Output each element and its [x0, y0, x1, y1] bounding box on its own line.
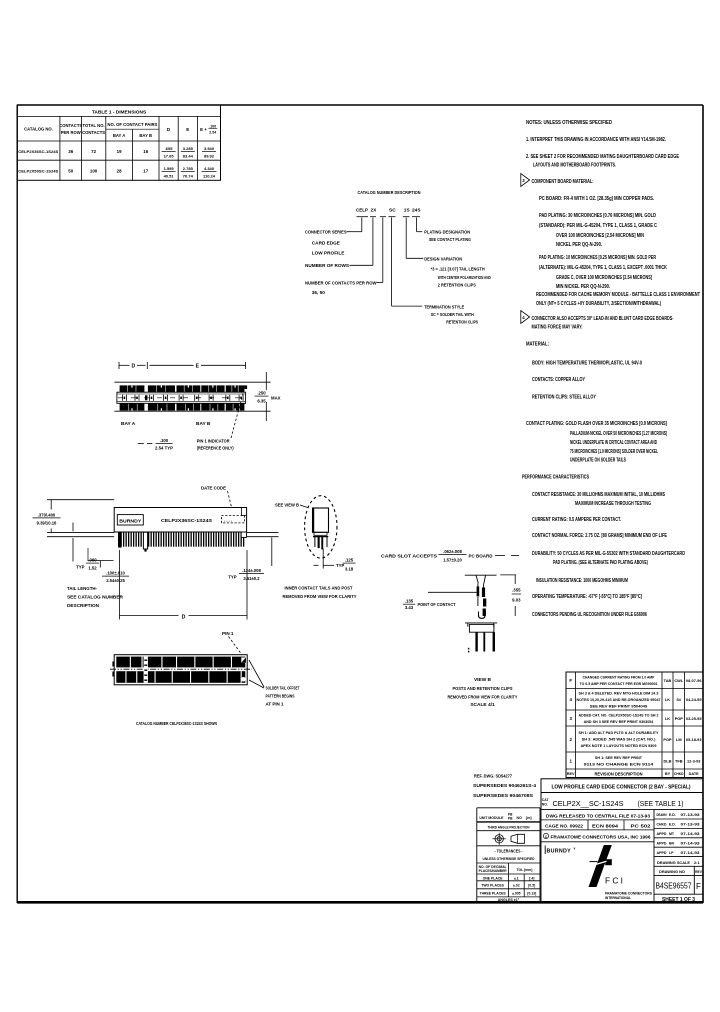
top view dimension line D E [119, 364, 130, 366]
approval rows [654, 818, 703, 820]
revision table row lines [566, 688, 703, 690]
svg-text:MIN NICKEL PER QQ-N-290.: MIN NICKEL PER QQ-N-290. [556, 284, 610, 290]
svg-text:TERMINATION STYLE: TERMINATION STYLE [424, 304, 464, 309]
svg-text:APPD: APPD [657, 851, 667, 855]
svg-text:REF. DWG. SD54277: REF. DWG. SD54277 [474, 774, 512, 779]
svg-text:NOTES 10,20,29-41S AND RE-ORGA: NOTES 10,20,29-41S AND RE-ORGANIZED 9504… [577, 697, 661, 702]
svg-text:NICKEL UNDERPLATE IN CRITICAL: NICKEL UNDERPLATE IN CRITICAL CONTACT AR… [570, 440, 657, 446]
svg-text:9113 NO CHANGE ECN: 9113 NO CHANGE ECN 9114 [584, 761, 655, 766]
svg-text:CATALOG NUMBER DESCRIPTION: CATALOG NUMBER DESCRIPTION [358, 190, 421, 196]
svg-text:TFB: TFB [675, 758, 683, 763]
svg-text:89.92: 89.92 [204, 154, 215, 159]
svg-text:17.65: 17.65 [164, 154, 175, 159]
svg-text:SH 3: ADDED .545 WAS SH 2 (CAT: SH 3: ADDED .545 WAS SH 2 (CAT. NO.) [582, 737, 656, 742]
svg-text:72: 72 [91, 149, 96, 154]
svg-text:CONNECTOR ALSO ACCEPTS 30° LEA: CONNECTOR ALSO ACCEPTS 30° LEAD-IN AND B… [532, 316, 674, 322]
svg-text:DESCRIPTION: DESCRIPTION [67, 603, 100, 608]
svg-text:PAD PLATING: 10 MICROINCHES [0: PAD PLATING: 10 MICROINCHES [0.25 MICRON… [539, 255, 656, 261]
svg-text:CATALOG NUMBER CELP2X36SC-1S24: CATALOG NUMBER CELP2X36SC-1S24S SHOWN [136, 721, 217, 727]
svg-text:COMPONENT BOARD MATERIAL:: COMPONENT BOARD MATERIAL: [532, 179, 594, 185]
svg-text:UNIT MODULE: UNIT MODULE [479, 816, 504, 820]
svg-text:TYP: TYP [76, 565, 84, 570]
svg-text:SC = SOLDER TAIL WITH: SC = SOLDER TAIL WITH [431, 312, 474, 317]
bottom view mounting ears [112, 662, 114, 667]
center polarization key top view [145, 395, 147, 400]
svg-text:PERFORMANCE CHARACTERISTICS: PERFORMANCE CHARACTERISTICS [522, 475, 589, 481]
cat no row [541, 809, 703, 811]
svg-text:SC: SC [389, 208, 396, 214]
svg-text:CELP2X__SC-1S24S: CELP2X__SC-1S24S [553, 799, 624, 808]
svg-text:PGP: PGP [675, 716, 684, 721]
svg-text:PAD PLATING. (SEE ALTERNATE PA: PAD PLATING. (SEE ALTERNATE PAD PLATING … [553, 560, 648, 566]
side view body outline [114, 508, 246, 533]
svg-text:APPD: APPD [657, 832, 667, 836]
svg-text:[m]: [m] [526, 816, 532, 820]
svg-text:TO 0.5 AMP PER CONTACT PER EGR: TO 0.5 AMP PER CONTACT PER EGR MG90001 [580, 681, 659, 686]
pitch dim 100 typ [138, 443, 144, 445]
svg-text:04-24-95: 04-24-95 [686, 697, 702, 702]
svg-text:F C I: F C I [605, 875, 623, 885]
drawing scale row [654, 856, 703, 858]
svg-text:PC BOARD: PC BOARD [469, 553, 494, 558]
svg-text:24S: 24S [412, 208, 421, 214]
svg-text:.100: .100 [209, 125, 216, 129]
svg-text:FRAMATOME CONNECTORS USA, INC: FRAMATOME CONNECTORS USA, INC 1996 [551, 834, 651, 839]
svg-text:PATTERN BEGINS: PATTERN BEGINS [266, 694, 295, 699]
svg-text:TAB: TAB [664, 678, 672, 683]
svg-text:B4SE96557: B4SE96557 [656, 881, 692, 890]
bottom view pin 1 corner marker [241, 657, 246, 662]
svg-text:D: D [131, 364, 135, 370]
leader plating designation [416, 218, 418, 232]
middle column released row [541, 819, 654, 821]
svg-text:(ALTERNATE): MIL-G-45204, TYP: (ALTERNATE): MIL-G-45204, TYPE 1, CLASS … [539, 265, 667, 271]
svg-text:RETENTION CLIPS: STEEL ALLOY: RETENTION CLIPS: STEEL ALLOY [532, 395, 597, 401]
svg-text:INSULATION RESISTANCE: 1000 ME: INSULATION RESISTANCE: 1000 MEGOHMS MINI… [536, 578, 628, 584]
svg-text:NUMBER OF ROWS: NUMBER OF ROWS [305, 263, 349, 268]
svg-text:BY: BY [665, 772, 671, 776]
svg-text:±.005: ±.005 [512, 891, 521, 895]
svg-text:AT PIN 1: AT PIN 1 [266, 702, 284, 707]
svg-text:CATALOG NO.: CATALOG NO. [24, 127, 53, 132]
solder tail offset leaders [249, 660, 264, 687]
svg-text:75 MICROINCHES [1.9 MICRONS] S: 75 MICROINCHES [1.9 MICRONS] SOLDER OVER… [570, 449, 658, 455]
svg-text:CONNECTORS PENDING UL RECOGNIT: CONNECTORS PENDING UL RECOGNITION UNDER … [532, 612, 647, 618]
svg-text:.060: .060 [88, 558, 97, 563]
svg-text:OPERATING TEMPERATURE: -67°F [: OPERATING TEMPERATURE: -67°F [-55°C] TO … [532, 594, 642, 600]
bottom D dimension [119, 550, 121, 620]
center polarization post side view [143, 532, 147, 549]
svg-text:36: 36 [68, 149, 73, 154]
third angle projection symbol [497, 837, 501, 841]
housing contact motifs [121, 395, 123, 401]
svg-text:v: v [574, 847, 576, 851]
svg-text:CARD SLOT ACCEPTS: CARD SLOT ACCEPTS [381, 553, 437, 558]
svg-text:16: 16 [143, 149, 148, 154]
svg-text:TYP: TYP [336, 563, 344, 568]
svg-text:.695: .695 [165, 146, 174, 151]
svg-text:CONNECTOR SERIES: CONNECTOR SERIES [305, 230, 347, 235]
svg-text:36, 50: 36, 50 [312, 290, 325, 295]
svg-text:PC 502: PC 502 [631, 823, 652, 828]
svg-text:DRAWING NO: DRAWING NO [659, 869, 685, 874]
svg-text:NO: NO [517, 816, 523, 820]
svg-text:SEE CATALOG NUMBER: SEE CATALOG NUMBER [67, 595, 124, 600]
svg-text:.134±.008: .134±.008 [242, 568, 261, 573]
svg-text:AND SH 3 SEE REV REF PRINT 930: AND SH 3 SEE REV REF PRINT 9303054 [584, 719, 654, 724]
svg-text:CHANGED CURRENT RATING FROM 1.: CHANGED CURRENT RATING FROM 1.0 AMP [583, 675, 655, 680]
svg-text:DRAWING SCALE: DRAWING SCALE [657, 860, 690, 865]
board thickness dim 060 [72, 523, 74, 532]
framatome copyright row [541, 841, 654, 843]
svg-text:PAD PLATING: 30 MICROINCHES [0: PAD PLATING: 30 MICROINCHES [0.76 MICRON… [539, 213, 656, 219]
svg-text:2 RETENTION CLIPS: 2 RETENTION CLIPS [438, 283, 476, 288]
svg-text:[.4]: [.4] [529, 876, 534, 880]
motherboard lines right [247, 531, 279, 533]
drawing number cell [693, 866, 695, 894]
svg-text:CONTACT NORMAL FORCE: 2.75 OZ.: CONTACT NORMAL FORCE: 2.75 OZ. [80 GRAMS… [532, 533, 668, 539]
svg-text:50: 50 [68, 169, 73, 174]
bottom view white grid top row [130, 657, 131, 668]
svg-text:PGP: PGP [663, 737, 672, 742]
contact beams in slot [477, 587, 480, 597]
solder tail comb [118, 532, 119, 546]
svg-text:VIEW B: VIEW B [474, 677, 492, 683]
svg-text:05-18-93: 05-18-93 [686, 737, 702, 742]
svg-text:.355: .355 [512, 588, 521, 593]
svg-text:CELP2X36SC-1S24S: CELP2X36SC-1S24S [18, 150, 59, 154]
svg-text:BAY A: BAY A [121, 421, 136, 427]
top view height dim line 250 max [265, 372, 267, 390]
bottom view black fill top row [116, 657, 245, 668]
fci slash logo [598, 845, 612, 863]
svg-text:TOTAL NO.: TOTAL NO. [83, 123, 105, 128]
svg-text:TWO PLACES: TWO PLACES [481, 883, 504, 887]
pin 1 indicator dot [244, 385, 247, 389]
svg-text:2.54 TYP: 2.54 TYP [155, 446, 173, 451]
svg-text:07-14-93: 07-14-93 [681, 851, 700, 855]
svg-text:BAY B: BAY B [139, 133, 152, 138]
svg-text:CAGE NO. 09922: CAGE NO. 09922 [545, 823, 584, 828]
svg-text:- TOLERANCES -: - TOLERANCES - [495, 849, 523, 854]
svg-text:2. SEE SHEET 2 FOR RECOMMENDE: 2. SEE SHEET 2 FOR RECOMMENDED MATING DA… [526, 154, 680, 160]
table row divider [17, 159, 220, 161]
svg-text:DLB: DLB [664, 758, 672, 763]
svg-text:F: F [569, 678, 572, 683]
svg-text:CARD EDGE: CARD EDGE [312, 241, 340, 246]
svg-text:CAT: CAT [542, 798, 550, 802]
svg-text:. . . .: . . . . [224, 517, 232, 522]
svg-text:MAX: MAX [271, 396, 281, 401]
svg-text:PIN 1 INDICATOR: PIN 1 INDICATOR [197, 438, 231, 443]
pin 1 leader dashed [231, 390, 244, 438]
svg-text:POINT OF CONTACT: POINT OF CONTACT [418, 602, 456, 607]
svg-text:CONTACTS: COPPER ALLOY: CONTACTS: COPPER ALLOY [532, 377, 585, 383]
svg-text:TAIL LENGTH-: TAIL LENGTH- [67, 586, 97, 591]
svg-text:07-13-93: 07-13-93 [681, 823, 700, 827]
svg-text:3.285: 3.285 [183, 146, 194, 151]
svg-text:PC BOARD: FR-4 WITH 1 OZ. [28.: PC BOARD: FR-4 WITH 1 OZ. [28.35g] MIN C… [539, 196, 655, 202]
svg-text:DWG RELEASED TO CENTRAL FILE 0: DWG RELEASED TO CENTRAL FILE 07-13-93 [546, 813, 651, 818]
title bar box [541, 779, 703, 793]
svg-text:SEE REV REF PRINT 9504049: SEE REV REF PRINT 9504049 [590, 703, 648, 708]
svg-text:ECN 8094: ECN 8094 [592, 823, 619, 828]
svg-text:DATE: DATE [689, 772, 700, 776]
bottom view black fill bottom row [116, 671, 245, 683]
leader number of rows [372, 218, 374, 266]
svg-text:(REFERENCE ONLY): (REFERENCE ONLY) [197, 446, 234, 451]
svg-text:PER ROW: PER ROW [61, 130, 81, 135]
svg-text:LOW PROFILE CARD EDGE CONNECTO: LOW PROFILE CARD EDGE CONNECTOR (2 BAY -… [552, 785, 691, 791]
bottom view white grid bottom row [125, 671, 126, 683]
body right end step detail [241, 508, 243, 515]
view b base band [314, 532, 327, 535]
svg-text:03-25-95: 03-25-95 [686, 716, 702, 721]
svg-text:SH 3 & 4 DELETED. REV MTG HOLE: SH 3 & 4 DELETED. REV MTG HOLE DIM 24.3 [579, 690, 660, 695]
svg-text:SH 1: SEE REV REF PRINT: SH 1: SEE REV REF PRINT [595, 755, 643, 760]
svg-text:2X: 2X [371, 208, 378, 214]
svg-text:3.51±0.2: 3.51±0.2 [243, 576, 260, 581]
svg-text:.100: .100 [160, 438, 169, 443]
svg-text:THIRD ANGLE PROJECTION: THIRD ANGLE PROJECTION [488, 825, 530, 829]
svg-text:LK: LK [665, 697, 670, 702]
housing centerline dashes [118, 397, 245, 399]
note flag 4 [521, 311, 530, 324]
svg-text:CONTACT PLATING: GOLD FLASH OV: CONTACT PLATING: GOLD FLASH OVER 35 MICR… [526, 421, 667, 427]
svg-text:RETENTION CLIPS: RETENTION CLIPS [446, 319, 478, 324]
view b tails [314, 537, 316, 547]
view b end view body [313, 508, 329, 532]
view b ellipse dashed [305, 496, 337, 558]
svg-text:APEX NOTE 1 LAYOUTS NOTED E: APEX NOTE 1 LAYOUTS NOTED ECN 9309 [581, 743, 658, 748]
svg-text:FRAMATOME CONNECTORS: FRAMATOME CONNECTORS [605, 891, 652, 895]
motherboard lines left [47, 531, 114, 533]
svg-text:3.540: 3.540 [204, 146, 215, 151]
retention clip post right end [241, 532, 246, 537]
leader design variation [405, 218, 407, 259]
svg-text:TOL [mm]: TOL [mm] [517, 868, 533, 872]
svg-text:12-3-93: 12-3-93 [687, 758, 701, 763]
drawing sheet border [17, 104, 703, 106]
svg-text:D: D [182, 614, 186, 620]
svg-text:CHKD: CHKD [657, 823, 667, 827]
leader connector series [361, 218, 363, 232]
sheet row [654, 893, 703, 895]
tail length dim right 134 [271, 538, 273, 567]
svg-text:TYP: TYP [228, 575, 236, 580]
bottom view retention clip hole [241, 677, 246, 682]
svg-text:CURRENT RATING: 0.5 AMPERE PER: CURRENT RATING: 0.5 AMPERE PER CONTACT. [532, 517, 621, 523]
tail protrusion dim 100 [88, 560, 114, 562]
svg-text:SEE VIEW B: SEE VIEW B [275, 502, 300, 507]
svg-text:LP: LP [669, 851, 674, 855]
left tolerance block [477, 807, 540, 809]
leader number of contacts per row [382, 218, 384, 283]
cross section top face line [465, 574, 497, 576]
tolerance table [477, 862, 540, 864]
svg-text:CELP2X36SC-1S24S: CELP2X36SC-1S24S [161, 518, 213, 524]
svg-text:RECOMMENDED FOR CACHE MEMORY M: RECOMMENDED FOR CACHE MEMORY MODULE - BA… [536, 292, 700, 298]
svg-text:MT: MT [669, 832, 675, 836]
svg-text:CELP: CELP [356, 208, 369, 214]
svg-text:LAYOUTS AND MOTHERBOARD FOOTPR: LAYOUTS AND MOTHERBOARD FOOTPRINTS. [533, 163, 616, 169]
svg-text:SH 1: ADD ALT PAD PLTG & ALT D: SH 1: ADD ALT PAD PLTG & ALT DURABILITY [579, 730, 659, 735]
svg-text:BODY: HIGH TEMPERATURE THERMOP: BODY: HIGH TEMPERATURE THERMOPLASTIC, UL… [532, 361, 642, 367]
svg-text:POSTS AND RETENTION CLIPS: POSTS AND RETENTION CLIPS [453, 686, 514, 692]
leader termination style [391, 218, 393, 307]
svg-text:MATERIAL:: MATERIAL: [526, 342, 549, 348]
svg-text:MAXIMUM INCREASE THROUGH TESTI: MAXIMUM INCREASE THROUGH TESTING [575, 501, 651, 507]
svg-text:UNDERPLATE ON SOLDER TAILS: UNDERPLATE ON SOLDER TAILS [570, 458, 626, 464]
svg-text:PLATING DESIGNATION: PLATING DESIGNATION [424, 230, 471, 235]
cage ecn pc row [541, 829, 654, 831]
stack height extension line [47, 499, 114, 501]
svg-text:INNER CONTACT TAILS AND POST: INNER CONTACT TAILS AND POST [285, 586, 353, 591]
svg-text:[0.5]: [0.5] [528, 883, 535, 887]
svg-text:PALLADIUM-NICKEL OVER 50 MICRO: PALLADIUM-NICKEL OVER 50 MICROINCHES [1.… [570, 431, 667, 437]
svg-text:NO. OF CONTACT PAIRS: NO. OF CONTACT PAIRS [107, 122, 157, 127]
svg-text:07-14-93: 07-14-93 [681, 832, 700, 836]
svg-text:INTERNATIONAL: INTERNATIONAL [605, 896, 631, 900]
svg-text:1.52: 1.52 [88, 566, 97, 571]
bottom view body outline [114, 655, 247, 685]
revision table box [566, 672, 703, 778]
svg-text:DATE CODE: DATE CODE [201, 486, 226, 491]
svg-text:BAY B: BAY B [196, 421, 211, 427]
svg-text:CELP2X50SC-1S24S: CELP2X50SC-1S24S [18, 170, 59, 174]
svg-text:NUMBER OF CONTACTS PER ROW: NUMBER OF CONTACTS PER ROW [305, 280, 377, 285]
svg-text:REV: REV [695, 870, 703, 874]
svg-text:40.51: 40.51 [164, 173, 175, 178]
svg-text:.250: .250 [257, 391, 266, 396]
svg-text:3.18: 3.18 [345, 567, 354, 572]
contact hook bottom [479, 611, 486, 618]
svg-text:APPD: APPD [657, 841, 667, 845]
svg-text:GRADE C, OVER 100 MICROINCHES: GRADE C, OVER 100 MICROINCHES [2.54 MICR… [556, 275, 652, 281]
svg-text:ANGLES ±1°: ANGLES ±1° [498, 898, 520, 902]
svg-text:THREE PLACES: THREE PLACES [480, 891, 507, 895]
svg-text:.125: .125 [345, 558, 354, 563]
top view contact blocks upper row [120, 385, 145, 393]
svg-text:SEE CONTACT PLATING: SEE CONTACT PLATING [429, 237, 471, 242]
table column lines [59, 116, 61, 180]
svg-text:NOTES: UNLESS OTHERWISE SPECIF: NOTES: UNLESS OTHERWISE SPECIFIED [526, 120, 612, 126]
svg-text:BAY A: BAY A [113, 133, 125, 138]
top view housing band [117, 392, 246, 403]
svg-text:.100±.010: .100±.010 [106, 571, 125, 576]
svg-text:REVISION DESCRIPTION: REVISION DESCRIPTION [595, 771, 643, 776]
svg-text:17: 17 [143, 169, 148, 174]
svg-text:SOLDER TAIL OFFSET: SOLDER TAIL OFFSET [266, 685, 300, 690]
svg-text:UNLESS OTHERWISE SPECIFIED: UNLESS OTHERWISE SPECIFIED [483, 857, 535, 861]
svg-text:ONE PLACE: ONE PLACE [483, 876, 504, 880]
svg-text:*3 = .121 [3.07] TAIL LENGTH: *3 = .121 [3.07] TAIL LENGTH [431, 266, 486, 271]
segment underscores [357, 216, 369, 218]
svg-text:1S: 1S [404, 208, 411, 214]
svg-text:DURABILITY: 50 CYCLES AS PER M: DURABILITY: 50 CYCLES AS PER MIL-G-55302… [532, 551, 685, 557]
svg-text:BURNDY: BURNDY [119, 519, 142, 525]
svg-text:3.43: 3.43 [405, 605, 414, 610]
svg-text:70.74: 70.74 [183, 173, 194, 178]
cross section slot funnel [476, 576, 478, 584]
svg-text:4.340: 4.340 [204, 166, 215, 171]
svg-text:MATING FORCE MAY VARY.: MATING FORCE MAY VARY. [532, 325, 583, 331]
svg-text:PIN 1: PIN 1 [222, 631, 234, 636]
top view extension lines [114, 381, 270, 383]
svg-text:REMOVED FROM VIEW FOR CLARITY: REMOVED FROM VIEW FOR CLARITY [283, 594, 357, 599]
svg-text:(SEE TABLE 1): (SEE TABLE 1) [638, 801, 684, 808]
svg-text:E.D.: E.D. [669, 823, 676, 827]
svg-text:SCALE 4/1: SCALE 4/1 [470, 702, 495, 708]
mounted section bottom figure [465, 622, 497, 624]
table sub-header line bay a bay b [106, 128, 159, 130]
svg-text:6.35: 6.35 [257, 399, 266, 404]
svg-text:83.44: 83.44 [183, 154, 194, 159]
svg-text:LOW PROFILE: LOW PROFILE [312, 251, 345, 256]
svg-text:DESIGN VARIATION: DESIGN VARIATION [424, 256, 463, 261]
svg-text:PLACES/NUMBER: PLACES/NUMBER [479, 869, 508, 873]
svg-text:.370/.400: .370/.400 [38, 512, 56, 517]
svg-text:REV: REV [567, 772, 575, 776]
svg-text:NICKEL PER QQ-N-290.: NICKEL PER QQ-N-290. [556, 242, 603, 248]
svg-text:PB: PB [508, 817, 513, 821]
svg-text:9.03: 9.03 [512, 598, 521, 603]
contact block white separators [126, 385, 129, 393]
svg-text:19: 19 [117, 149, 122, 154]
svg-text:ADDED CAT. NO. CELP2X50SC-1S24: ADDED CAT. NO. CELP2X50SC-1S24S TO SH 2 [579, 712, 660, 717]
svg-text:E.D.: E.D. [669, 813, 676, 817]
svg-text:1.595: 1.595 [164, 166, 175, 171]
svg-text:CONTACTS: CONTACTS [59, 123, 82, 128]
svg-text:2:1: 2:1 [694, 860, 700, 865]
svg-text:SHEET 1 OF 3: SHEET 1 OF 3 [662, 897, 695, 903]
svg-text:9.39/10.16: 9.39/10.16 [37, 521, 57, 526]
svg-text:S#: S# [676, 697, 682, 702]
svg-text:08-07-96: 08-07-96 [686, 678, 702, 683]
svg-text:[0.13]: [0.13] [527, 891, 536, 895]
view b tail dim 125 [322, 549, 324, 569]
point of contact dim [428, 591, 477, 593]
svg-text:OVER 100 MICROINCHES [2.54 MIC: OVER 100 MICROINCHES [2.54 MICRONS] MIN [556, 233, 644, 239]
table header row line [17, 115, 220, 117]
svg-text:CHKD: CHKD [674, 772, 684, 776]
svg-text:±.1: ±.1 [514, 876, 519, 880]
svg-text:28: 28 [117, 169, 122, 174]
svg-text:CWL: CWL [674, 678, 683, 683]
svg-text:REMOVED FROM VIEW FOR CLARITY: REMOVED FROM VIEW FOR CLARITY [448, 695, 519, 701]
svg-text:(STANDARD): PER MIL-G-45204: (STANDARD): PER MIL-G-45204, TYPE 1, CLA… [539, 223, 657, 229]
svg-text:07-13-93: 07-13-93 [681, 813, 700, 817]
svg-text:2.54: 2.54 [209, 131, 216, 135]
burndy logo box on body [117, 515, 143, 525]
svg-text:±.02: ±.02 [513, 883, 520, 887]
svg-text:SUPERSEDES 9046261S-4: SUPERSEDES 9046261S-4 [473, 783, 536, 788]
svg-text:1.57±0.20: 1.57±0.20 [443, 558, 462, 563]
title block vertical dividers [540, 793, 542, 903]
svg-text:E: E [186, 127, 189, 132]
bottom view centerline dash dot [110, 668, 252, 670]
note flag 3 [521, 174, 530, 187]
svg-text:1. INTERPRET THIS DRAWING IN: 1. INTERPRET THIS DRAWING IN ACCORDANCE … [526, 137, 666, 143]
svg-text:.135: .135 [405, 599, 414, 604]
table header bottom line [17, 140, 220, 142]
date code dashed box [221, 516, 244, 523]
cross section height dim 355 [514, 575, 516, 584]
svg-text:F: F [696, 882, 701, 891]
svg-text:CONTACT RESISTANCE: 30 MILLIOH: CONTACT RESISTANCE: 30 MILLIOHMS MAXIMUM… [532, 492, 665, 498]
table 1 dimensions outer box [17, 105, 220, 180]
svg-text:NO.: NO. [542, 803, 548, 807]
